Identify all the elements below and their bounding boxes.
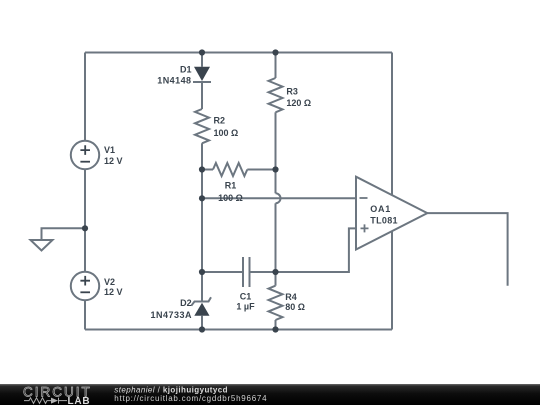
svg-text:TL081: TL081	[370, 215, 398, 225]
svg-text:R3: R3	[286, 87, 298, 97]
svg-text:V2: V2	[104, 277, 115, 287]
svg-text:1 µF: 1 µF	[236, 301, 255, 311]
svg-text:R4: R4	[285, 292, 297, 302]
svg-text:120 Ω: 120 Ω	[286, 98, 311, 108]
svg-text:1N4733A: 1N4733A	[150, 310, 192, 320]
svg-text:V1: V1	[104, 145, 115, 155]
svg-text:1N4148: 1N4148	[157, 76, 191, 86]
svg-text:R1: R1	[225, 181, 237, 191]
svg-text:C1: C1	[240, 292, 252, 302]
svg-text:D2: D2	[180, 298, 192, 308]
svg-text:D1: D1	[180, 65, 192, 75]
svg-text:OA1: OA1	[370, 204, 391, 214]
svg-text:100 Ω: 100 Ω	[214, 128, 239, 138]
svg-text:http://circuitlab.com/cgddbr5h: http://circuitlab.com/cgddbr5h96674	[114, 394, 267, 403]
svg-text:80 Ω: 80 Ω	[285, 302, 305, 312]
svg-text:12 V: 12 V	[104, 287, 123, 297]
svg-text:R2: R2	[214, 116, 226, 126]
svg-text:100 Ω: 100 Ω	[218, 193, 243, 203]
svg-text:12 V: 12 V	[104, 156, 123, 166]
svg-text:LAB: LAB	[68, 396, 91, 405]
